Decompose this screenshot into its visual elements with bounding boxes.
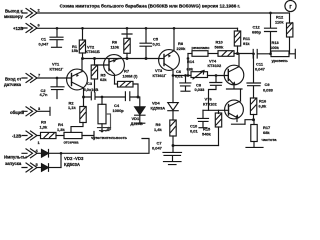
svg-text:общий: общий [10,110,25,115]
svg-text:частота: частота [262,137,278,142]
node rail VT3 collector tap [173,27,176,30]
wire VT3 emitter to VD4 [172,70,174,103]
svg-text:0,01: 0,01 [190,128,198,133]
transistor VT6 KT3102 [203,97,245,125]
svg-text:Д223Б: Д223Б [131,121,143,126]
svg-text:100k: 100k [270,45,280,50]
wire +12V rail [37,27,238,29]
capacitor C6 [175,69,191,91]
node VT3 emitter R14 tap [172,74,175,77]
resistor R4 [57,122,94,140]
transistor VT2 KT361B [86,44,125,84]
svg-text:запуска: запуска [5,161,22,166]
svg-text:резонанс: резонанс [192,45,211,50]
svg-text:0,033: 0,033 [195,87,206,92]
svg-text:560k: 560k [215,44,225,49]
capacitor C9 [247,54,274,98]
node R5 top [93,57,96,60]
resistor R12 [275,15,293,54]
svg-text:6,8k: 6,8k [259,104,267,109]
resistor R1 [72,28,86,58]
svg-text:91k: 91k [243,41,250,46]
svg-text:КД503А: КД503А [151,106,166,111]
capacitor C1 [39,28,64,47]
wire emitter bus y58.5 [83,58,160,60]
label R8 [177,41,187,51]
node pot sensitivity tap [101,96,104,99]
diode VD1 [131,97,146,126]
svg-text:КТ3102: КТ3102 [208,63,222,68]
capacitor C11 [253,50,271,72]
svg-text:62k: 62k [100,77,107,82]
capacitor C4 [102,92,138,113]
node R16 R17 junction [252,118,255,121]
diode VD4 [151,101,179,120]
svg-text:0,047: 0,047 [39,42,50,47]
connector X1 pin5 trigger [22,162,41,172]
node rail R1 tap [81,27,84,30]
wire R8 to emitter node [187,54,189,76]
svg-text:110k: 110k [275,19,284,24]
resistor R6 [111,28,133,58]
node C4 VD1 R7 junction [137,96,140,99]
node trigger junction [60,152,63,155]
node R9 bottom junction [172,144,175,147]
resistor R5 [91,59,107,93]
connector X1 pin6 +12V [13,23,41,33]
connector X1 pin3 общий [10,106,50,116]
svg-text:0,047: 0,047 [152,145,163,150]
wire mixer output top rail [37,13,290,23]
node R11 VT4 collector junction [236,52,239,55]
resistor R13 level [270,40,295,58]
resistor R10 trimmer [215,40,254,57]
svg-text:Схема имитатора большого бараб: Схема имитатора большого барабана (ВО50К… [60,3,241,9]
node mixer C12 tap [269,12,272,15]
svg-text:C9: C9 [265,82,271,87]
node R8 tap [187,57,190,60]
svg-text:100М (!): 100М (!) [123,74,139,79]
capacitor C12 [252,13,277,54]
resistor R11 [234,28,251,53]
resistor R3 [40,120,65,139]
svg-text:микшеру: микшеру [4,14,24,19]
node R6 bottom [126,57,129,60]
potentiometer sensitivity [98,97,111,132]
node rail C1 tap [56,27,59,30]
transistor VT1 KT361G [50,59,88,106]
svg-text:чувствительность: чувствительность [91,135,128,140]
title [60,3,241,9]
wire trigger line to right [61,139,149,154]
resistor R9 [154,120,176,146]
wire VT4 collector [238,54,240,67]
svg-text:1,1k: 1,1k [68,105,76,110]
svg-text:C3: C3 [87,81,93,86]
capacitor C10 [190,110,209,133]
svg-text:4,7n: 4,7n [40,92,48,97]
svg-text:КТ361Г: КТ361Г [153,73,167,78]
resistor R16 [250,98,267,120]
wire VT6 base bus [203,109,229,111]
svg-text:VD2 -VD3: VD2 -VD3 [64,156,84,161]
svg-text:0,033: 0,033 [263,87,274,92]
page marker circle г [285,0,296,11]
svg-text:540k: 540k [202,132,212,137]
diode VD3 [42,164,62,172]
capacitor C7 [152,140,182,164]
node C5 bottom [145,57,148,60]
node R1 bottom [81,57,84,60]
svg-text:1,3k: 1,3k [40,125,48,130]
node VT1 collector junction [82,96,85,99]
svg-text:КТ3102: КТ3102 [203,101,217,106]
svg-text:0,047: 0,047 [255,67,266,72]
svg-text:1,4k: 1,4k [154,127,162,132]
svg-text:КТ361Б: КТ361Б [86,49,100,54]
node R8 bottom [187,74,190,77]
wire VT3 collector [173,28,175,50]
svg-text:отсечка: отсечка [64,140,80,145]
svg-text:0,01: 0,01 [153,41,161,46]
svg-text:Импульсы: Импульсы [4,155,27,160]
svg-text:0,01: 0,01 [175,73,183,78]
node rail C5 tap [145,27,148,30]
resistor R2 [68,101,86,133]
label VD2-VD3 [64,156,84,167]
svg-text:680p: 680p [252,30,262,35]
svg-text:1,3k: 1,3k [57,127,65,132]
svg-text:КД503А: КД503А [64,162,80,167]
svg-text:уровень: уровень [272,58,289,63]
wire trigger join [60,153,62,167]
svg-text:220k: 220k [177,46,187,51]
resistor R15 [202,110,222,145]
svg-text:R14: R14 [187,59,195,64]
node C12 bottom junction [269,52,272,55]
svg-text:-12В: -12В [12,134,21,139]
potentiometer R14 rezonans [173,59,228,79]
wire VT6 emitter to R16 R17 node [245,120,254,125]
transistor VT3 KT361G [153,50,180,78]
svg-text:1000p: 1000p [113,108,125,113]
node rail R6 tap [126,27,129,30]
capacitor C8 [195,76,222,111]
svg-text:КТ361Г: КТ361Г [50,66,64,71]
svg-text:C1: C1 [41,36,47,41]
wire input to VT1 base [37,77,72,79]
connector X1 pin1 -12V [12,131,41,145]
node C8 tap [215,74,218,77]
capacitor C3 electrolytic [84,81,103,100]
capacitor C5 [140,28,161,58]
capacitor C2 [40,78,65,99]
resistor R8 [188,51,218,57]
node input C2 tap [56,77,59,80]
node C9 top junction [252,52,255,55]
resistor R17 [246,120,271,148]
svg-text:5,0х16В: 5,0х16В [84,87,99,92]
connector X1 pin7 Вход от датчика [4,73,41,87]
connector X1 pin2 Выход к микшеру [4,8,41,19]
wire R9 to R15 [173,145,219,147]
svg-text:68k: 68k [263,130,270,135]
svg-text:110k: 110k [111,45,120,50]
svg-text:15k: 15k [72,48,79,53]
transistor VT4 KT3102 [208,58,244,89]
connector X1 pin4 trigger [4,148,41,166]
svg-text:68k: 68k [187,66,194,71]
diode VD2 [42,150,62,158]
svg-text:датчика: датчика [4,82,22,87]
node C6 tap [184,74,187,77]
wire VT4 emitter to VT6 collector [240,89,242,101]
resistor R7 [115,69,139,97]
